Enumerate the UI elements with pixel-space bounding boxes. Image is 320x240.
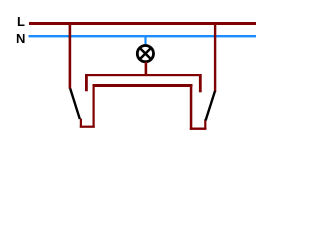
svg-text:N: N	[16, 31, 25, 46]
wire lamp stub to N (blue)	[144, 36, 146, 46]
wire lamp-rail right contact drop	[199, 74, 202, 92]
lamp E1 circle	[137, 46, 153, 62]
wire right U hook bottom	[190, 128, 207, 130]
wire inner rail (lower traveler)	[93, 84, 193, 87]
wire L rail (dark red)	[29, 22, 256, 25]
wire inner-rail right drop to S2 pivot hook	[190, 84, 193, 130]
switch S1 blade (black)	[70, 89, 80, 120]
wire left drop from L to switch S1 contact	[69, 22, 72, 89]
wire lamp-rail left contact drop	[85, 74, 88, 91]
wire right drop from L to switch S2 contact	[214, 22, 216, 92]
svg-text:L: L	[17, 14, 25, 29]
switch S2 blade (black)	[206, 91, 215, 121]
lamp E1 cross	[140, 48, 151, 59]
wire inner-rail left drop to S1 pivot hook	[93, 84, 95, 128]
wire lamp bottom stub (dark red)	[145, 62, 148, 75]
wire lamp rail (upper traveler)	[85, 74, 202, 76]
wire N rail (blue)	[29, 35, 257, 37]
wire right U hook vertical to S2 pivot	[204, 119, 206, 129]
wire left U hook bottom	[80, 126, 95, 128]
wire left U hook vertical to S1 pivot	[80, 119, 82, 128]
